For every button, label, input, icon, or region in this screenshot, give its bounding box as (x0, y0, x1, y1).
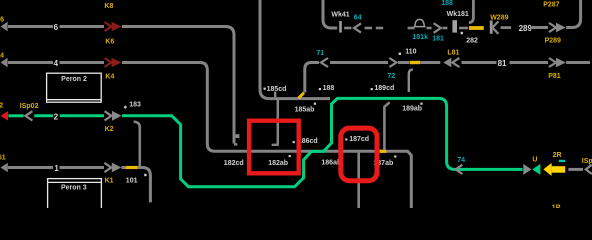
svg-text:E4: E4 (0, 52, 4, 59)
wire dash d (408, 27, 415, 30)
yellow bar (552, 166, 566, 173)
wire 289 corner up (566, 0, 580, 28)
svg-text:W289: W289 (490, 15, 508, 22)
svg-text:189cd: 189cd (374, 85, 394, 92)
contact symbol W289 (490, 20, 493, 33)
wire after 72 (398, 61, 409, 64)
wire 81 a (462, 61, 497, 64)
svg-text:72: 72 (387, 73, 395, 80)
contact bar Wk41 (339, 21, 342, 33)
svg-text:2: 2 (54, 112, 59, 121)
wire track1 b (60, 166, 105, 169)
wire track1 corner down (138, 168, 151, 203)
wire track4 a (8, 61, 53, 64)
wire track2 green a (8, 114, 23, 117)
wire stub above bus (274, 92, 276, 97)
wire Wk181 drop hook (469, 0, 474, 23)
marker 187cd (345, 138, 347, 140)
wire 81 c (566, 61, 590, 64)
wire Wk41 drop and corner (323, 0, 337, 28)
wire 71-72 middle (330, 61, 388, 64)
wire to L81 (420, 61, 440, 64)
node track6 left arrow (1, 22, 8, 31)
svg-text:P81: P81 (548, 73, 561, 80)
arrow chevron right 181 (434, 23, 441, 33)
svg-text:101: 101 (126, 177, 138, 184)
marker 186cd (293, 141, 295, 143)
arrow 81 right composite (549, 58, 556, 67)
wire track2 green c (60, 114, 104, 117)
switch K2 arrow gray (105, 111, 112, 120)
svg-text:ISp02: ISp02 (20, 103, 39, 110)
cyan tick (559, 160, 565, 162)
marker 188 (319, 88, 321, 90)
wire dash b (365, 27, 372, 30)
arrow ISp02 chevron left (25, 111, 32, 120)
wire track1 c (121, 166, 126, 169)
Peron 3 box (48, 179, 102, 211)
marker 187ab (394, 155, 396, 157)
wire track4 U to bottom bus (122, 63, 411, 209)
bracket hook right of 72 (409, 70, 413, 92)
arrow green left triangle (532, 164, 540, 175)
wire yellow segment on bottom bus (380, 150, 387, 153)
svg-text:K2: K2 (105, 126, 114, 133)
svg-text:185cd: 185cd (267, 86, 287, 93)
contact bar Wk181 (452, 20, 457, 32)
arrow 289 right composite (549, 23, 556, 32)
wire vertical A x384 with tick (384, 102, 389, 150)
marker 183 diamond (123, 105, 127, 109)
svg-text:K6: K6 (105, 39, 114, 46)
svg-text:181: 181 (432, 35, 444, 42)
wire 71-72 corner and vertical V3 (305, 63, 319, 93)
arrow yellow left triangle (543, 163, 551, 176)
arrow 64 chevron left (354, 23, 361, 32)
wire track6 a (8, 25, 53, 28)
wire yellow segment 282 (469, 26, 484, 30)
arrow 71 chevron left (321, 58, 328, 67)
wire foot at x234 (234, 143, 237, 145)
svg-text:186ab: 186ab (321, 159, 341, 166)
svg-text:64: 64 (354, 14, 362, 21)
wire 81 b (510, 61, 549, 64)
svg-text:289: 289 (519, 24, 533, 33)
wire hook x140 from track2 (134, 122, 140, 167)
switch K1 arrow gray (104, 163, 111, 172)
wire track6 to corner down (122, 27, 234, 144)
wire V1 top to bus (260, 0, 330, 99)
svg-text:81: 81 (498, 59, 507, 68)
svg-text:110: 110 (405, 48, 416, 55)
arrow 72 chevron right (389, 58, 396, 67)
svg-text:74: 74 (457, 157, 465, 164)
svg-text:185ab: 185ab (295, 106, 315, 113)
svg-text:P289: P289 (545, 38, 561, 45)
node track2 red arrow (1, 111, 9, 120)
marker 282 (461, 32, 463, 34)
svg-text:ISp: ISp (582, 158, 592, 165)
svg-text:182cd: 182cd (224, 160, 244, 167)
svg-text:4: 4 (54, 59, 59, 68)
svg-text:1: 1 (54, 164, 59, 173)
svg-text:183: 183 (129, 101, 141, 108)
svg-text:K4: K4 (105, 74, 114, 81)
svg-text:U: U (532, 157, 537, 164)
arrow ISp chevron left (586, 165, 592, 174)
Peron 2 box (47, 73, 102, 102)
marker 189cd (371, 88, 373, 90)
svg-text:K1: K1 (105, 177, 114, 184)
marker 189ab (420, 103, 422, 105)
switch K4 arrow maroon (105, 58, 112, 67)
wire dash a (344, 27, 351, 30)
svg-text:71: 71 (316, 50, 324, 57)
svg-text:K8: K8 (104, 3, 113, 10)
marker 101 (144, 174, 146, 176)
wire gray right (568, 168, 583, 171)
svg-text:1P: 1P (552, 205, 561, 208)
arrow 74 chevron left (456, 165, 463, 174)
wire dash c (376, 27, 383, 30)
wire track4 b (60, 61, 105, 64)
marker 185ab (314, 103, 316, 105)
arrow 81 left composite (443, 58, 451, 68)
arrow gray right triangle (523, 164, 531, 175)
wire yellow segment 81 row (410, 61, 421, 64)
marker 186ab (339, 156, 341, 158)
svg-text:p2: p2 (0, 103, 3, 110)
svg-text:187cd: 187cd (349, 136, 369, 143)
red highlight box 187cd (341, 128, 377, 181)
svg-text:P287: P287 (543, 1, 559, 8)
marker 182ab (289, 155, 291, 157)
svg-text:282: 282 (466, 37, 478, 44)
wire track6 b (60, 25, 105, 28)
svg-text:2R: 2R (553, 152, 562, 159)
wire branch down x278 (277, 100, 280, 145)
marker 110 (399, 53, 401, 55)
wire yellow tip of V3 (298, 93, 304, 98)
svg-text:188: 188 (323, 85, 335, 92)
wire hook at branch bottom (272, 144, 279, 146)
green route path (122, 98, 523, 186)
balise dome symbol (414, 19, 426, 26)
wire yellow segment track1 (126, 166, 138, 169)
wire track1 a (8, 166, 53, 169)
svg-text:Peron 3: Peron 3 (61, 184, 87, 191)
svg-text:61: 61 (0, 155, 6, 162)
red highlight box 182ab (249, 121, 299, 174)
switch K6 arrow maroon (105, 22, 112, 31)
node track1 left arrow (1, 163, 8, 172)
svg-text:182ab: 182ab (268, 160, 288, 167)
svg-text:L81: L81 (447, 49, 459, 56)
svg-text:E6: E6 (0, 16, 4, 23)
wire after W289 (501, 26, 511, 29)
wire 289 b (532, 26, 548, 29)
wire track2 green b (34, 114, 53, 117)
svg-text:6: 6 (54, 23, 59, 32)
wire dash e (426, 27, 431, 30)
wire vertical through box2 (357, 153, 360, 208)
svg-text:Peron 2: Peron 2 (61, 76, 87, 83)
svg-text:188: 188 (441, 0, 453, 7)
wire dash f (443, 27, 448, 30)
svg-text:Wk41: Wk41 (331, 11, 349, 18)
svg-text:181k: 181k (412, 34, 428, 41)
junction square near x236 (236, 134, 240, 138)
node track4 left arrow (1, 58, 8, 67)
svg-text:189ab: 189ab (402, 106, 422, 113)
marker 185cd (264, 88, 266, 90)
svg-text:Wk181: Wk181 (447, 11, 469, 18)
wire dash g (459, 27, 468, 30)
